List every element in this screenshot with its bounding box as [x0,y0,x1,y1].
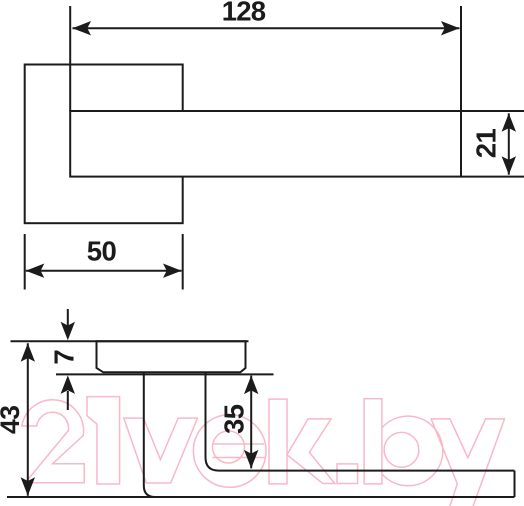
dimension line 35 [250,376,252,469]
lever bar right end cap [514,471,516,497]
watermark letter k [269,399,287,484]
lever neck left edge + bottom curve (side view) [144,372,156,497]
dimension line 50 [26,270,182,272]
dimension line 43 [27,343,29,496]
extension line right of 50 dim [182,234,184,290]
extension line for 21 dim, bottom [461,176,524,178]
lever bar bottom line (with 43 extension to left) [7,496,515,498]
extension line right of 128 dim [460,6,462,111]
square rose plate (top view) [25,65,183,224]
watermark letter e [193,415,266,488]
watermark digit 1 [87,397,120,484]
svg-text:21: 21 [471,129,502,159]
rose plate (side view) [97,341,246,372]
svg-text:43: 43 [0,406,25,434]
svg-text:35: 35 [218,404,249,434]
7 dim upper arrow (points down) [67,309,69,327]
watermark letter b [364,399,382,484]
svg-text:128: 128 [222,0,266,26]
svg-text:50: 50 [87,236,117,267]
watermark letter v [124,418,198,483]
watermark letter y [431,419,504,506]
extension line left of 50 dim [24,234,26,290]
dimension line 128 [73,27,460,29]
extension line at rose bottom [56,373,274,375]
lever neck right edge + curve + bar top line (side view) [206,372,515,470]
svg-text:7: 7 [48,349,79,364]
watermark dot [337,464,358,484]
dimension line 21 [508,113,510,174]
watermark digit 2 [22,400,84,483]
extension line left of 128 dim [69,6,71,111]
7 dim lower arrow (points up) [67,391,69,410]
extension line at rose top [11,340,249,342]
extension line for 21 dim, top [461,110,524,112]
lever bar (top view) [70,111,461,177]
